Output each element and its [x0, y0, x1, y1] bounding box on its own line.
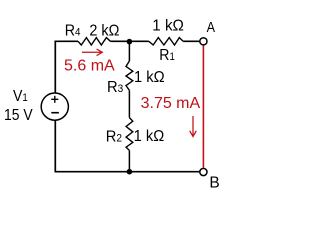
svg-text:3.75 mA: 3.75 mA: [141, 95, 201, 112]
svg-text:1 kΩ: 1 kΩ: [152, 17, 184, 34]
V1 plus: [51, 98, 58, 100]
wire R3 to R2: [128, 90, 130, 117]
svg-text:5.6 mA: 5.6 mA: [64, 58, 115, 75]
wire R4 to R1: [110, 40, 148, 42]
wire red right: [202, 46, 204, 168]
wire left lower: [54, 120, 56, 172]
resistor R3: [126, 61, 133, 90]
node A: [200, 38, 207, 45]
resistor R4: [78, 38, 110, 45]
wire top-left segment: [55, 41, 78, 93]
wire R2 to bottom: [128, 150, 130, 171]
voltage source V1: [41, 93, 68, 120]
wire middle branch upper: [128, 41, 130, 61]
svg-text:15 V: 15 V: [4, 106, 33, 124]
junction bottom: [127, 169, 133, 175]
resistor R1: [149, 38, 183, 45]
svg-text:A: A: [207, 18, 216, 35]
resistor R2: [126, 118, 133, 151]
svg-text:1 kΩ: 1 kΩ: [134, 127, 165, 145]
node B: [200, 168, 207, 175]
wire bottom: [55, 171, 200, 173]
svg-text:2 kΩ: 2 kΩ: [89, 22, 119, 40]
V1 minus: [51, 112, 59, 114]
current arrow 3.75 mA: [190, 116, 197, 137]
current arrow 5.6 mA: [82, 49, 102, 56]
svg-text:1 kΩ: 1 kΩ: [134, 69, 165, 87]
svg-text:B: B: [209, 175, 219, 192]
junction top: [127, 39, 133, 45]
wire R1 to node A: [183, 40, 200, 42]
